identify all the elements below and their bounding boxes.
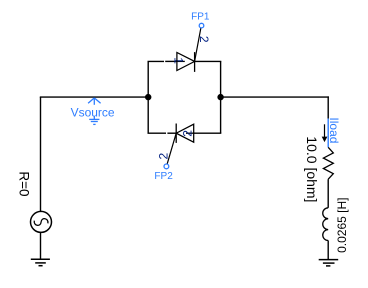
ammeter current direction arrow bbox=[322, 124, 328, 142]
wire: loop right vertical bbox=[220, 61, 222, 133]
wire: thyristor T1 cathode to loop top right corner bbox=[195, 60, 222, 62]
svg-text:2: 2 bbox=[197, 36, 211, 43]
thyristor T2 anode stub bbox=[186, 132, 194, 134]
node B junction dot (right) bbox=[217, 94, 223, 100]
ammeter Iload (blue inline segment) bbox=[327, 119, 329, 148]
svg-text:FP2: FP2 bbox=[154, 171, 173, 182]
ground (under source) bbox=[31, 259, 50, 265]
svg-text:0.0265 [H]: 0.0265 [H] bbox=[335, 198, 349, 253]
wire: thyristor T2 anode to loop bottom right corner bbox=[194, 132, 222, 134]
wire: main horizontal from left corner to node A bbox=[40, 96, 148, 98]
svg-text:2: 2 bbox=[157, 153, 171, 160]
wire: loop top left segment bbox=[148, 60, 165, 62]
svg-text:Vsource: Vsource bbox=[71, 106, 115, 120]
svg-text:1: 1 bbox=[172, 57, 186, 64]
wire: source top to node A (left vertical) bbox=[40, 97, 42, 212]
thyristor T1 anode stub bbox=[177, 60, 185, 62]
wire: resistor to inductor bbox=[327, 179, 329, 208]
wire: node B to right corner bbox=[221, 96, 329, 98]
svg-text:R=0: R=0 bbox=[17, 171, 32, 196]
svg-text:FP1: FP1 bbox=[191, 12, 210, 23]
wire: loop bottom to thyristor T2 cathode bbox=[167, 132, 176, 134]
resistor 10.0 ohm (zigzag) bbox=[323, 147, 333, 179]
thyristor T1 gate terminal circle bbox=[199, 23, 204, 28]
inductor 0.0265 H (three arcs) bbox=[323, 208, 328, 241]
wire: source bottom to ground bbox=[40, 233, 42, 260]
wire: loop top segment to thyristor T1 anode bbox=[165, 60, 177, 62]
ground (right, under inductor) bbox=[319, 260, 339, 266]
thyristor T2 gate terminal circle bbox=[164, 164, 169, 169]
thyristor T2 gate line bbox=[167, 133, 176, 164]
wire: right vertical upper (to ammeter) bbox=[327, 96, 329, 118]
svg-text:10.0 [ohm]: 10.0 [ohm] bbox=[304, 136, 320, 202]
svg-text:2: 2 bbox=[180, 130, 194, 137]
wire: loop bottom left segment bbox=[148, 132, 167, 134]
node A junction dot (left) bbox=[145, 94, 151, 100]
voltmeter Vsource probe arrow bbox=[88, 98, 101, 105]
wire: inductor to ground bbox=[327, 241, 329, 260]
thyristor T2 (FP2) triangle and cathode bar bbox=[176, 124, 194, 143]
thyristor T1 gate line bbox=[195, 28, 201, 62]
wire: loop left vertical bbox=[147, 61, 149, 133]
thyristor T1 (FP1) triangle and cathode bar bbox=[177, 52, 195, 72]
voltage source (AC, R=0) bbox=[31, 211, 52, 232]
svg-text:Iload: Iload bbox=[327, 117, 341, 143]
voltmeter reference mini-ground bbox=[89, 117, 99, 125]
